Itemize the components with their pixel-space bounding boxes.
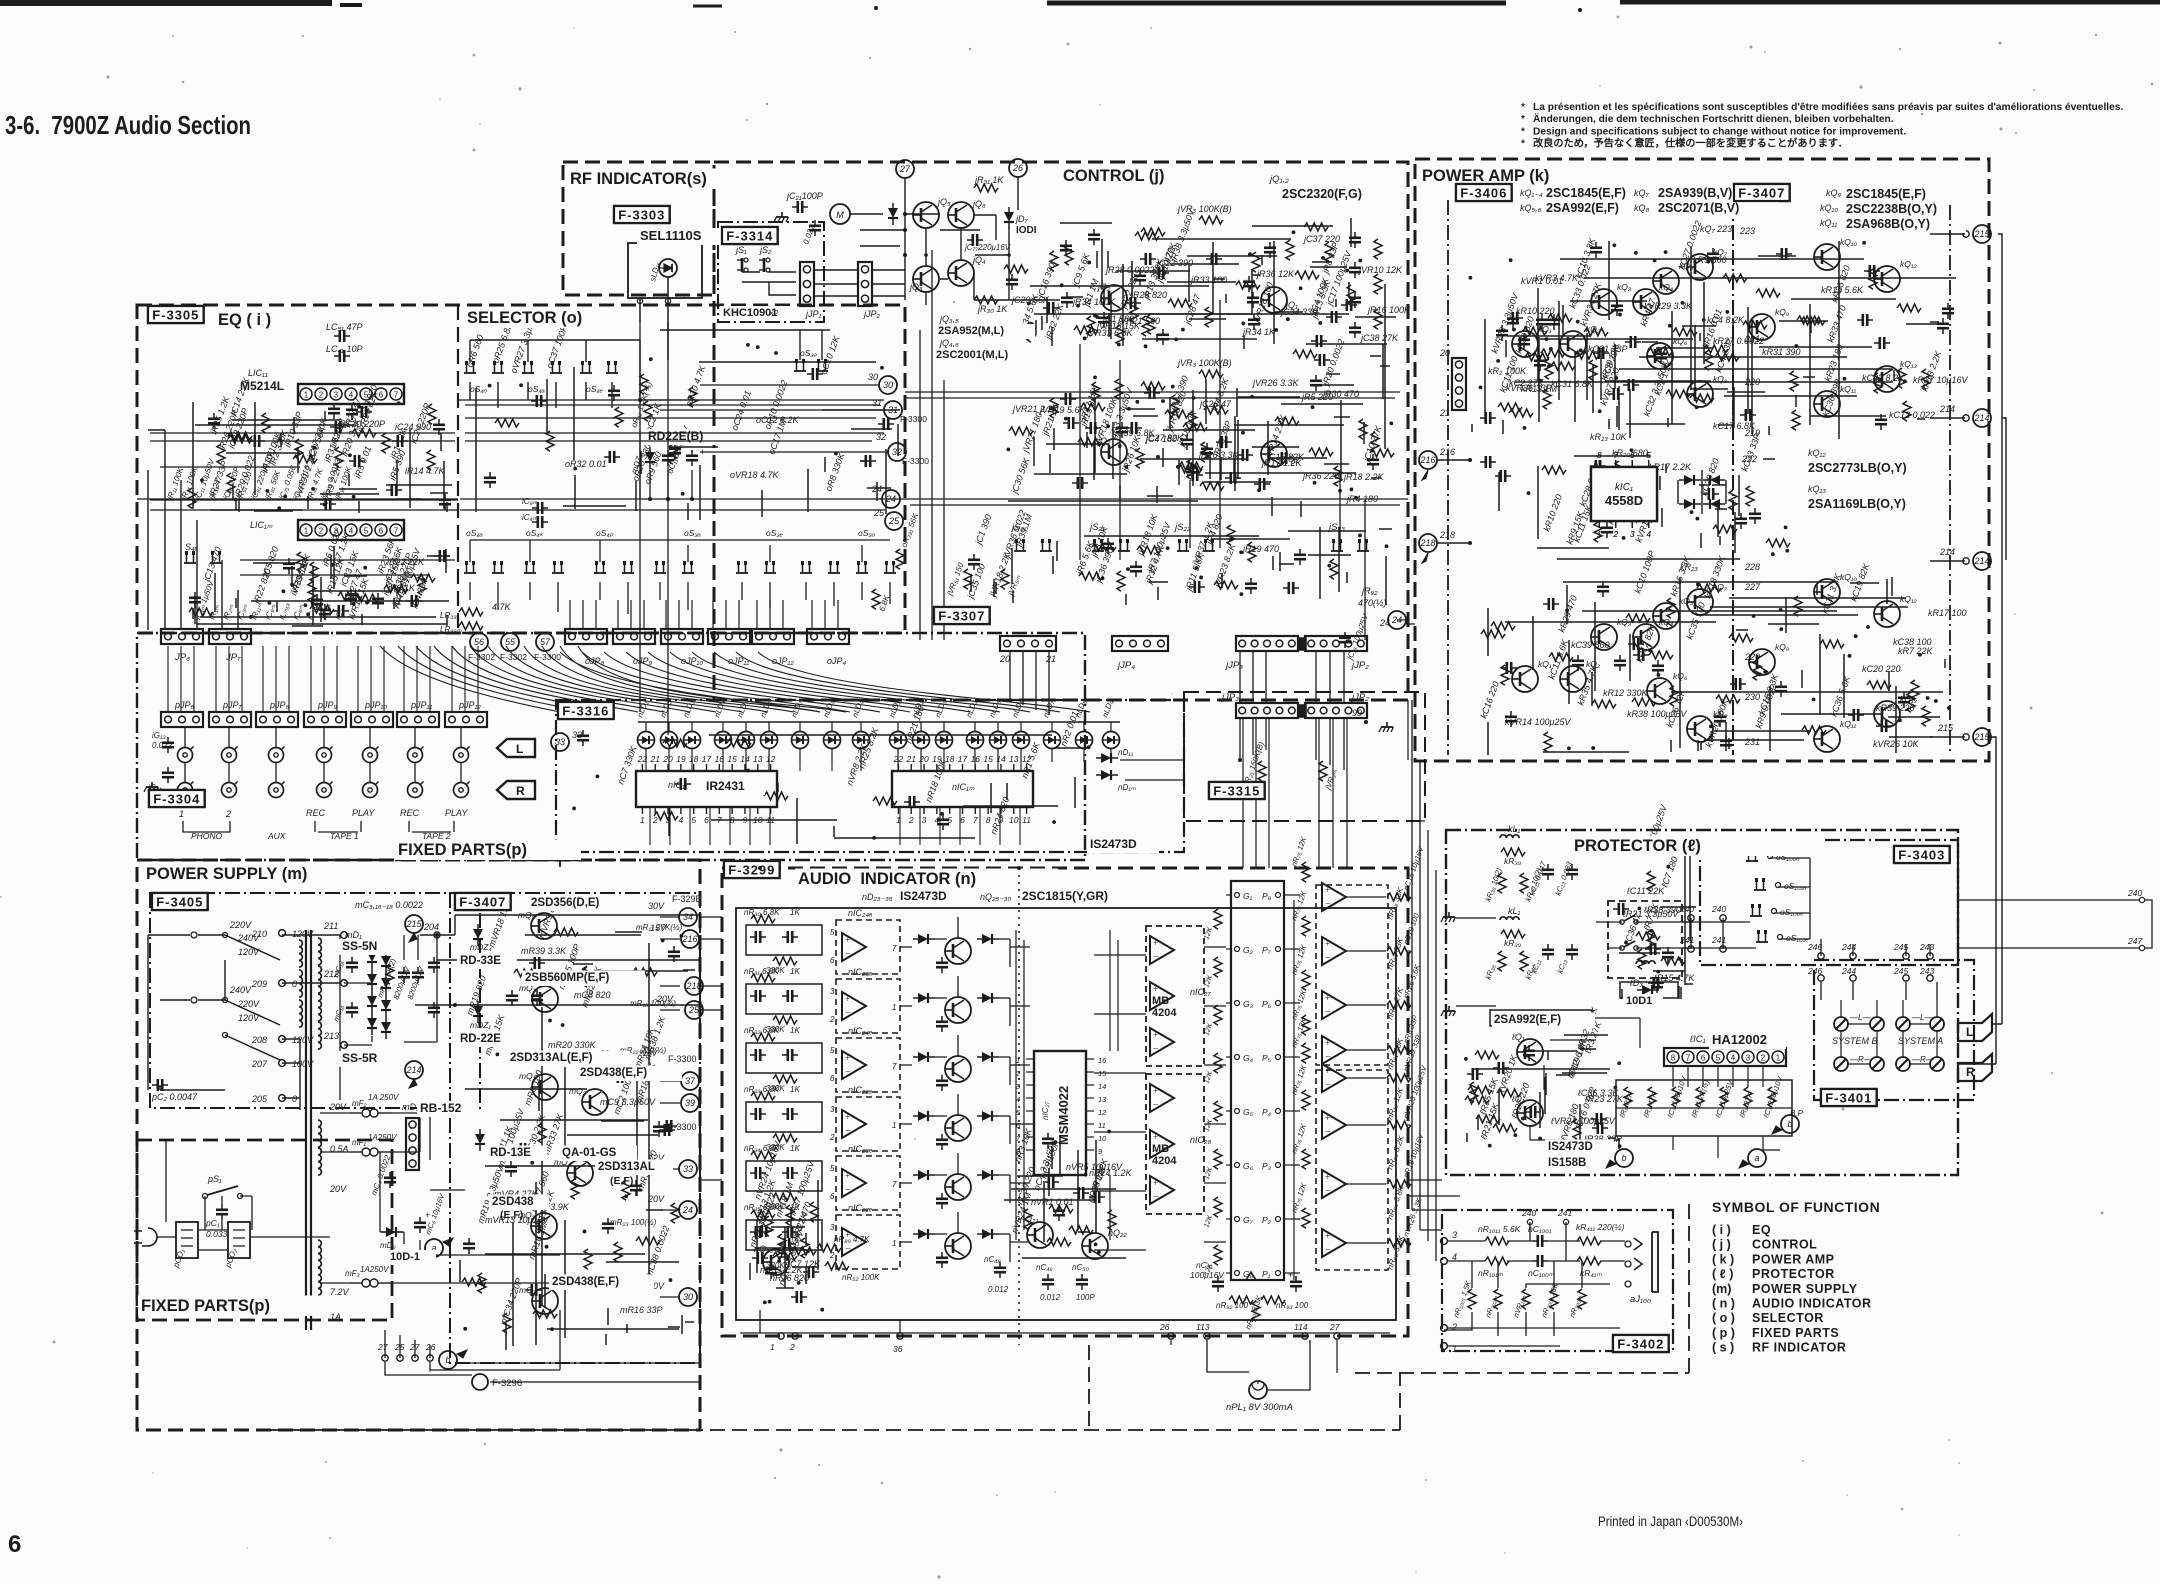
prot gnd marks [1441,912,1456,922]
svg-text:kQ₉: kQ₉ [1775,642,1790,652]
overlay F boxes 2 [148,306,204,323]
svg-text:nIC₂₄ₑ: nIC₂₄ₑ [848,1026,873,1036]
capacitor [208,413,220,429]
capacitor [463,1238,475,1254]
capacitor [1740,409,1756,421]
conn RB152 [406,1118,419,1170]
wire bus [1054,379,1356,491]
svg-text:19: 19 [676,754,686,764]
svg-text:( k ): ( k ) [1712,1252,1734,1266]
svg-text:11: 11 [1022,815,1031,825]
svg-text:218: 218 [1419,538,1435,548]
control stage upper [1060,204,1351,340]
wire bus [1506,301,1734,430]
resistor [1165,410,1189,418]
rc net 0 [746,925,822,955]
overlay 4558D [1591,467,1657,521]
svg-text:229: 229 [1744,652,1760,662]
svg-text:6: 6 [1630,450,1635,460]
resistor [1147,314,1155,334]
cap pC1 [216,1204,228,1220]
svg-text:2SD313AL: 2SD313AL [598,1161,655,1173]
svg-text:jR28 820: jR28 820 [1130,290,1167,300]
svg-text:1K: 1K [790,967,800,976]
svg-text:jJP₂: jJP₂ [1350,660,1369,671]
svg-text:3-6. 7900Z Audio Section: 3-6. 7900Z Audio Section [5,110,251,140]
LED nLD13 [967,732,984,749]
capacitor [1060,240,1072,256]
svg-text:27: 27 [1329,1322,1340,1332]
transistor jQ3 [913,266,939,292]
legend SYMBOL OF FUNCTION [1712,1199,1880,1355]
sel jp wires [570,600,838,629]
capacitor [779,1238,795,1250]
svg-text:nR₁₀₁₁ 5.6K: nR₁₀₁₁ 5.6K [1478,1224,1521,1234]
svg-text:3: 3 [1452,1230,1457,1240]
connector JP7 [209,629,251,644]
LED nLD5 [738,732,755,749]
ps top bus [415,915,700,1005]
svg-text:1: 1 [1776,1054,1781,1063]
resistor [1869,269,1877,289]
svg-text:7: 7 [394,527,399,536]
diode nD36 [977,1229,999,1239]
capacitor [1006,274,1018,290]
wire fan 2 [560,652,1090,712]
resistor [1802,726,1826,734]
switch 2 [1177,539,1189,551]
capacitor [878,418,894,430]
opamp right 7 [1322,1229,1346,1257]
capacitor [630,1180,642,1196]
transistor jQ4 [948,260,974,286]
fet switch bank 0 [464,561,476,573]
svg-text:IODI: IODI [1016,225,1037,236]
capacitor [506,990,518,1006]
capacitor [526,1284,542,1296]
svg-text:*: * [1521,114,1525,125]
switch 0 [1014,539,1026,551]
resistor [533,1310,557,1318]
resistor [1589,360,1597,380]
resistor [1541,349,1565,357]
svg-text:kL₁: kL₁ [1508,906,1521,916]
capacitor [604,451,620,463]
diode nD24 [913,993,935,1003]
svg-text:jC38 27K: jC38 27K [1360,333,1399,343]
svg-text:24: 24 [682,1205,693,1215]
svg-text:1K: 1K [790,1144,800,1153]
terminal 57 [536,633,554,651]
capacitor [1493,1062,1509,1074]
phono jack 6b [454,782,470,798]
resistor [1047,1238,1071,1246]
F-3316 box [558,702,614,719]
resistor [1509,409,1533,417]
res LR33R [459,622,483,630]
svg-text:kQ₁₂: kQ₁₂ [1900,594,1918,604]
svg-text:243: 243 [1919,966,1934,976]
svg-text:6: 6 [830,1192,835,1201]
svg-text:oR32 0.01: oR32 0.01 [565,459,607,469]
resistor [1523,327,1547,335]
transistor kQ&#8329; [1749,314,1775,340]
capacitor [1294,549,1306,565]
svg-text:jJP₁: jJP₁ [805,309,822,319]
capacitor [1085,422,1101,434]
resistor [310,562,318,582]
svg-text:改良のため，予告なく意匠，仕様の一部を変更することがあります: 改良のため，予告なく意匠，仕様の一部を変更することがあります． [1533,137,1848,150]
fp2 wires [157,1140,330,1250]
capacitor [1130,561,1142,577]
svg-text:1A: 1A [330,1312,341,1322]
svg-text:F-3314: F-3314 [726,229,773,244]
svg-text:216: 216 [1419,455,1435,465]
capacitor [860,455,876,467]
resistor [615,407,623,427]
fp brackets [183,821,454,832]
capacitor [968,554,980,570]
resistor [538,1123,546,1143]
svg-text:222: 222 [1741,454,1757,464]
svg-text:240: 240 [1521,1208,1536,1218]
svg-text:7: 7 [973,815,978,825]
resistor [228,432,252,440]
ps F-3405 inner frame [150,893,480,1108]
transistor kQ&#8323; [1591,289,1617,315]
capacitor [1276,452,1292,464]
capacitor [1102,538,1114,554]
transistor mQ&#8321; [532,986,558,1012]
resistor [1359,419,1367,439]
svg-text:214: 214 [405,1065,421,1075]
svg-text:1A250V: 1A250V [360,1265,389,1274]
svg-text:245: 245 [1893,966,1908,976]
bottom dashed frame 2 [559,852,561,868]
svg-text:241: 241 [1679,935,1694,945]
connector JP6 [161,629,203,644]
capacitor [1495,470,1511,482]
svg-text:JP₆: JP₆ [174,652,190,663]
svg-text:jVR₃ 100K(B): jVR₃ 100K(B) [1177,204,1232,214]
fet switch top 1 [492,361,504,373]
res LR33L [459,608,483,616]
F-3402 box [1613,1335,1669,1352]
transistor kQ&#8321;&#8320;' [1814,579,1840,605]
capacitor [1518,334,1530,350]
svg-text:10D1: 10D1 [1626,995,1652,1007]
capacitor [669,443,681,459]
terminal a prot [1748,1149,1766,1167]
capacitor [386,484,402,496]
svg-text:nPL₁ 8V 300mA: nPL₁ 8V 300mA [1226,1402,1293,1413]
f3402 vres [1468,1289,1476,1309]
diode ctrl [888,203,898,225]
svg-text:3: 3 [334,391,339,400]
capacitor [529,957,545,969]
svg-text:G₂: G₂ [1243,945,1254,955]
svg-text:1A 250V: 1A 250V [368,1093,399,1102]
svg-text:33: 33 [572,730,582,740]
resistor [1545,359,1553,379]
svg-text:kQ₁₁: kQ₁₁ [1820,218,1837,228]
fuse mF3 [350,1282,362,1284]
ai right labels [1385,886,1406,1271]
transistor kQ&#8323;' [1591,624,1617,650]
led top bus [638,721,1120,723]
svg-text:13: 13 [1098,1095,1107,1104]
svg-text:kQ₉: kQ₉ [1826,188,1842,198]
svg-text:55: 55 [505,637,516,647]
svg-text:244: 244 [1841,966,1856,976]
svg-text:mC₃,₁₆₋₁₈ 0.0022: mC₃,₁₆₋₁₈ 0.0022 [355,900,423,910]
svg-text:14: 14 [740,754,750,764]
svg-text:SELECTOR (o): SELECTOR (o) [467,309,582,327]
capacitor [328,403,340,419]
bank &#8467;C&#8323; 330&#956;10V [1768,1087,1776,1107]
svg-text:2SC1845(E,F): 2SC1845(E,F) [1546,186,1626,200]
resistor [1630,514,1654,522]
resistor [1501,665,1509,685]
resistor [217,444,225,464]
svg-text:mD₉: mD₉ [380,1241,396,1250]
transistor nQ21 [1027,1222,1053,1248]
capacitor [1590,242,1602,258]
svg-text:2SA992(E,F): 2SA992(E,F) [1546,201,1619,215]
svg-text:RD-22E: RD-22E [460,1033,501,1045]
svg-text:kQ₁₋₄: kQ₁₋₄ [1520,188,1543,198]
svg-text:211: 211 [323,921,338,931]
transistor mQ&#8327; [532,1288,558,1314]
svg-text:2SC1845(E,F): 2SC1845(E,F) [1846,187,1926,201]
svg-text:240: 240 [2127,888,2142,898]
transistor kQ&#8321;&#8321; [1814,391,1840,417]
svg-text:kR₄₁ₘ: kR₄₁ₘ [1580,1268,1602,1278]
resistor [1723,274,1747,282]
resistor [778,1234,786,1254]
transistor kQ&#8327; [1687,254,1713,280]
capacitor [439,494,451,510]
svg-text:F-3302: F-3302 [468,652,495,662]
capacitor [756,1225,772,1237]
resistor [1205,307,1213,327]
wire junctions [1006,400,1244,469]
fet switch bank 2 [524,561,536,573]
svg-text:18: 18 [689,754,699,764]
resistor [1922,706,1930,726]
svg-text:1: 1 [1597,529,1602,539]
svg-text:1K: 1K [790,1085,800,1094]
eq labels col1 [165,450,353,501]
svg-text:P₁: P₁ [1262,1269,1271,1279]
svg-text:LR₃₃ₘ: LR₃₃ₘ [440,625,462,634]
ic MSM4022 [1034,1051,1086,1175]
svg-text:RF INDICATOR(s): RF INDICATOR(s) [570,170,707,188]
resistor [297,552,305,572]
svg-text:32: 32 [892,447,902,457]
svg-text:1: 1 [179,809,184,819]
svg-text:jR₃₀ 1K: jR₃₀ 1K [977,304,1008,314]
resistor [335,447,343,467]
divider EQ|SELECTOR [457,305,459,633]
capacitor [807,368,823,380]
svg-text:kQ₁₃: kQ₁₃ [1900,359,1918,369]
resistor [1592,700,1616,708]
svg-text:1A250V: 1A250V [368,1133,397,1142]
LED nLD9 [853,732,870,749]
capacitor [406,595,422,607]
F-3315 box [1209,782,1265,799]
wire rf [639,298,641,305]
resistor [1874,373,1882,393]
wire junctions [572,745,1090,839]
svg-text:ℓR15 4.7K: ℓR15 4.7K [1653,973,1695,983]
selector oS3d [794,359,806,371]
svg-text:kQ₁₀: kQ₁₀ [1820,203,1838,213]
cap jC20 [809,220,821,236]
wire junctions [1060,230,1325,340]
res 12K 0 [1302,862,1310,882]
svg-text:G₃: G₃ [1243,999,1254,1009]
cap nc [936,1075,948,1091]
svg-text:×2: ×2 [769,309,779,318]
LED nLD16 [1044,732,1061,749]
block frame POWER SUPPLY (m) [137,860,700,1430]
overlay ctrl types [935,324,1035,339]
svg-text:kR₂₃: kR₂₃ [1680,562,1698,572]
connector pJP&#8321;&#8320; [351,712,393,727]
photodiode sLD15 [659,259,677,277]
capacitor [1534,355,1546,371]
switch oS&#8321;&#8320;&#8321;&#8337; [1756,930,1768,942]
switch jS1 [737,258,748,272]
wire bus [1030,242,1257,349]
svg-text:jQ₄,₆: jQ₄,₆ [939,338,959,348]
capacitor [1591,1113,1607,1125]
ac plug [134,1228,157,1246]
svg-text:RD-33E: RD-33E [460,955,501,967]
connector pJP&#8321;&#8322; [445,712,487,727]
svg-text:218: 218 [685,981,701,991]
terminal 25 [685,1001,703,1019]
F-3401 box [1821,1089,1877,1106]
resistor [1898,368,1906,388]
eq caps mid [532,502,548,514]
svg-text:kR₄₁₁ 220(½): kR₄₁₁ 220(½) [1576,1222,1625,1232]
capacitor [1876,720,1892,732]
transistor lQ2 [1517,1100,1543,1126]
resistor [1548,314,1572,322]
svg-text:FIXED PARTS(p): FIXED PARTS(p) [141,1297,270,1315]
capacitor [1254,478,1270,490]
svg-text:P₂: P₂ [1262,1215,1272,1225]
diode nD34 [977,1111,999,1121]
svg-text:FIXED PARTS(p): FIXED PARTS(p) [398,841,527,859]
resistor [293,455,317,463]
svg-text:nR24 1.2K: nR24 1.2K [1089,1168,1133,1178]
resistor [1697,584,1721,592]
svg-text:F-3401: F-3401 [1825,1091,1872,1106]
resistor [189,608,213,616]
svg-text:PLAY: PLAY [352,808,375,818]
resistor [1493,1124,1517,1132]
F-3315 frame [1184,692,1425,821]
transistor kQ&#8321;&#8322;' [1874,601,1900,627]
ic IR2431 [636,771,777,807]
coupler jjp [1298,638,1306,650]
fet switch bank 5 [622,561,634,573]
lamp wires [1207,1340,1310,1390]
ctrl-audio wire bundle [1243,719,1347,868]
resistor [1065,245,1073,265]
svg-text:2SC2320(F,G): 2SC2320(F,G) [1282,187,1362,201]
svg-text:25: 25 [688,1005,700,1015]
pentagon R2 [1958,1054,1992,1081]
terminal 55 [501,633,519,651]
transistor nQ28 [945,1115,971,1141]
svg-text:nIC₂₃ₑ: nIC₂₃ₑ [848,1144,873,1154]
connector oJP&#8321;&#8322; [752,629,794,644]
svg-text:POWER AMP (k): POWER AMP (k) [1422,167,1549,185]
svg-text:114: 114 [1294,1322,1308,1332]
svg-text:jC15 82K: jC15 82K [1266,452,1305,462]
resistor [1050,251,1058,271]
transistor mQ&#8322; [582,1089,608,1115]
svg-text:SELECTOR: SELECTOR [1752,1311,1824,1325]
transistor nQ210 [945,1233,971,1259]
ctrl bus col [920,250,1365,640]
svg-text:kQ₈: kQ₈ [1634,203,1650,213]
wire rf 2 [639,305,641,322]
svg-text:6: 6 [830,1074,835,1083]
overlay misc [637,228,724,245]
resistor [462,1278,486,1286]
svg-text:kQ₁₁: kQ₁₁ [1840,384,1857,394]
transistor kQ&#8326; [1647,343,1673,369]
resistor [1498,403,1522,411]
svg-text:mR39 3.3K: mR39 3.3K [521,946,567,956]
svg-text:jQ₃: jQ₃ [909,282,923,292]
svg-text:34: 34 [683,912,693,922]
capacitor [1608,388,1624,400]
capacitor [1645,943,1661,955]
svg-text:208: 208 [251,1035,267,1045]
svg-text:3: 3 [830,987,835,996]
svg-text:jR₉₂: jR₉₂ [1361,586,1378,596]
svg-text:210: 210 [251,929,267,939]
svg-text:241: 241 [1557,1208,1572,1218]
diode jD7 [1004,207,1014,229]
resistor [514,969,538,977]
svg-text:mR₁₀ 100(½): mR₁₀ 100(½) [630,999,676,1008]
svg-text:jJP₂: jJP₂ [1350,692,1369,703]
LED nLD15 [1013,732,1030,749]
diode LD3 [1637,985,1659,995]
resistor [1004,265,1028,273]
svg-text:mR₁₇ 27K(½): mR₁₇ 27K(½) [636,923,683,932]
wire fan eq-pjp [380,646,846,712]
pot jVR2R [1319,761,1327,781]
LED nLD18 [1103,732,1120,749]
capacitor [1543,598,1559,610]
resistor [810,1202,818,1222]
svg-text:LC₅₁ 47P: LC₅₁ 47P [326,322,362,332]
capacitor [1072,477,1088,489]
transistor mQ&#8324; [567,1160,593,1186]
svg-text:mR16 33P: mR16 33P [620,1305,663,1315]
svg-text:oJP₁₂: oJP₁₂ [772,656,794,666]
ai-prot vertical bus [1412,700,1442,1261]
